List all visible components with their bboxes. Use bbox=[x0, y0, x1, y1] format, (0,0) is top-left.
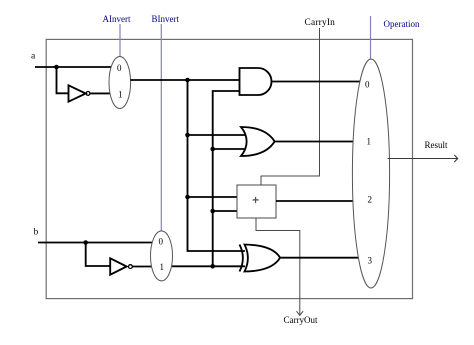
svg-text:CarryIn: CarryIn bbox=[305, 18, 336, 28]
wire CarryIn to adder bbox=[261, 28, 320, 185]
svg-text:0: 0 bbox=[159, 237, 164, 247]
inverter (a) bbox=[69, 85, 86, 101]
wire a to inverter bbox=[57, 67, 69, 93]
wire inverter b to mux bbox=[132, 266, 151, 268]
node a-bus to adder bbox=[185, 195, 190, 200]
label + (adder) bbox=[252, 197, 258, 203]
svg-text:Result: Result bbox=[425, 140, 449, 150]
OR gate bbox=[241, 127, 275, 156]
svg-text:b: b bbox=[34, 228, 39, 238]
wire a-mux output to AND bbox=[130, 79, 239, 81]
wire b input bbox=[38, 242, 152, 244]
svg-text:0: 0 bbox=[117, 63, 122, 73]
outer enclosure box bbox=[46, 39, 412, 298]
svg-text:1: 1 bbox=[160, 262, 165, 272]
mux 2:1 (a) AInvert bbox=[109, 57, 131, 109]
svg-text:1: 1 bbox=[367, 137, 372, 147]
wire XOR output to op-mux bbox=[280, 257, 359, 259]
svg-text:AInvert: AInvert bbox=[103, 14, 131, 24]
wire adder result to op-mux bbox=[276, 200, 353, 202]
adder U+ bbox=[237, 185, 276, 218]
svg-text:3: 3 bbox=[368, 256, 373, 266]
wire adder carry-out bbox=[256, 218, 300, 315]
svg-text:BInvert: BInvert bbox=[152, 14, 180, 24]
svg-text:1: 1 bbox=[118, 90, 123, 100]
svg-text:0: 0 bbox=[365, 80, 370, 90]
node a-bus to OR bbox=[185, 133, 190, 138]
node a branch bbox=[54, 65, 59, 70]
wire b-bus to adder bottom input bbox=[213, 210, 237, 212]
wire b-bus vertical bbox=[213, 91, 240, 266]
mux 2:1 (b) BInvert bbox=[151, 231, 173, 281]
wire a-bus to OR top input bbox=[188, 134, 248, 136]
svg-text:Operation: Operation bbox=[384, 19, 420, 29]
control line BInvert bbox=[160, 24, 162, 232]
node b-bus to adder bbox=[210, 209, 215, 214]
node b-bus to OR bbox=[210, 147, 215, 152]
node a-bus top bbox=[185, 78, 190, 83]
AND gate bbox=[240, 68, 272, 95]
arrowhead CarryOut bbox=[297, 311, 304, 315]
node b branch bbox=[83, 240, 88, 245]
wire Result output bbox=[388, 158, 458, 160]
mux 4:1 Operation bbox=[352, 59, 389, 288]
svg-text:a: a bbox=[31, 52, 36, 62]
node b-bus bottom bbox=[210, 264, 215, 269]
svg-text:2: 2 bbox=[368, 195, 373, 205]
svg-text:CarryOut: CarryOut bbox=[284, 315, 318, 325]
control line AInvert bbox=[119, 24, 121, 57]
wire AND output to op-mux bbox=[272, 81, 361, 83]
XOR gate bbox=[240, 245, 243, 272]
wire b-bus to OR bottom input bbox=[213, 148, 247, 150]
wire OR output to op-mux bbox=[274, 141, 353, 143]
wire b to inverter bbox=[86, 243, 111, 267]
control line Operation bbox=[370, 16, 372, 60]
arrowhead Result bbox=[454, 155, 457, 162]
wire b-mux output to XOR bbox=[172, 265, 245, 267]
wire a input bbox=[35, 66, 112, 68]
inverter (b) bbox=[110, 258, 126, 274]
wire inverter a to mux bbox=[90, 92, 112, 94]
wire a-bus vertical bbox=[188, 80, 246, 251]
wire a-bus to adder top input bbox=[188, 196, 238, 198]
